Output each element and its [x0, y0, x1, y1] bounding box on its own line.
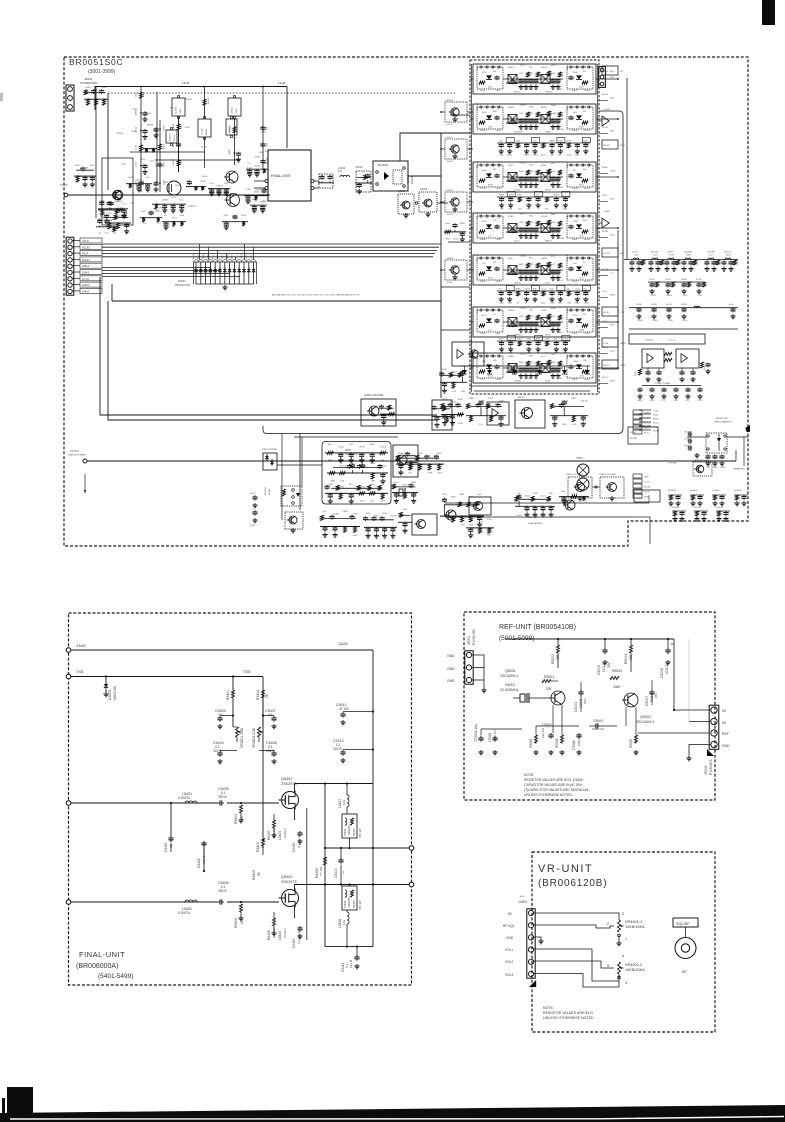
svg-text:00L2: 00L2	[212, 255, 214, 259]
svg-text:4KR5K: 4KR5K	[147, 125, 154, 127]
svg-text:2LuD: 2LuD	[517, 515, 522, 517]
svg-text:L5406: L5406	[343, 900, 347, 908]
svg-text:RLR3: RLR3	[256, 190, 262, 192]
svg-text:.01D0: .01D0	[480, 333, 486, 335]
capacitor C5409 0.1 16V B	[299, 831, 301, 833]
svg-text:L0022575: L0022575	[348, 825, 351, 836]
svg-text:3.3u: 3.3u	[323, 511, 327, 513]
svg-text:L3013: L3013	[355, 165, 363, 169]
svg-text:K.K43: K.K43	[520, 163, 526, 165]
svg-text:DX2SB: DX2SB	[410, 175, 414, 184]
svg-text:RDKD: RDKD	[496, 281, 502, 283]
component box second row	[226, 119, 237, 135]
svg-text:0Cu0: 0Cu0	[541, 155, 546, 157]
svg-text:4KK5: 4KK5	[579, 127, 584, 129]
svg-text:RESISTOR VALUES ARE IN Ω. 1/16: RESISTOR VALUES ARE IN Ω. 1/16W ;	[524, 778, 585, 782]
svg-text:L350K: L350K	[636, 304, 642, 306]
VR-UNIT dashed border	[532, 852, 715, 1032]
svg-text:R5408: R5408	[267, 930, 271, 940]
svg-text:C5007: C5007	[645, 696, 649, 706]
svg-text:PROTECTOR: PROTECTOR	[175, 284, 190, 287]
svg-text:.34: .34	[493, 314, 496, 316]
svg-text:NOTE:: NOTE:	[543, 1006, 554, 1010]
svg-text:444334: 444334	[630, 438, 638, 440]
svg-text:P1060873: P1060873	[709, 759, 713, 775]
svg-text:L0022575: L0022575	[348, 897, 351, 908]
svg-text:2LuR3C: 2LuR3C	[176, 106, 178, 114]
connector top right of bank	[599, 67, 606, 88]
svg-text:uC0K: uC0K	[507, 303, 512, 305]
resistor R5409 *** 1W	[324, 857, 327, 865]
svg-text:R4K4: R4K4	[524, 155, 529, 157]
svg-text:43L2: 43L2	[684, 432, 688, 434]
svg-text:2u.K: 2u.K	[121, 163, 126, 165]
svg-text:5.4L.: 5.4L.	[267, 126, 269, 131]
svg-text:0.C03: 0.C03	[696, 279, 702, 281]
svg-text:0K3D: 0K3D	[437, 453, 443, 455]
svg-text:4u31: 4u31	[563, 209, 567, 211]
svg-text:LCD4: LCD4	[650, 400, 655, 402]
svg-text:C.C30: C.C30	[136, 162, 138, 167]
wire between Q9001 Q9002	[592, 486, 600, 488]
svg-text:u.43: u.43	[509, 339, 513, 341]
svg-text:3uRKL: 3uRKL	[107, 204, 114, 206]
svg-text:RK45.: RK45.	[260, 202, 266, 204]
carrier parts row 1	[325, 452, 388, 454]
svg-text:.04C: .04C	[370, 501, 375, 503]
svg-text:L41.: L41.	[686, 400, 690, 402]
svg-text:.1K.: .1K.	[516, 303, 520, 305]
node TX5 input	[66, 674, 71, 679]
wire gate upper	[227, 802, 279, 804]
svg-text:D4D3D: D4D3D	[541, 67, 548, 69]
svg-text:u0C55: u0C55	[477, 306, 479, 313]
svg-text:47u: 47u	[338, 170, 343, 173]
svg-text:Ru53: Ru53	[582, 501, 587, 503]
svg-text:R303: R303	[562, 424, 567, 426]
svg-text:RR4K: RR4K	[112, 219, 118, 221]
svg-text:5.3LL: 5.3LL	[480, 379, 486, 381]
resistor R5404 1K	[262, 690, 264, 698]
svg-text:K4CC: K4CC	[418, 453, 424, 455]
svg-text:5uR.2: 5uR.2	[602, 195, 608, 197]
svg-text:5140: 5140	[519, 73, 523, 75]
capacitor C5008 10 6.3V	[667, 648, 669, 651]
svg-text:CD.RR: CD.RR	[603, 253, 610, 255]
svg-text:10u: 10u	[342, 920, 346, 925]
svg-text:GND: GND	[506, 936, 514, 940]
svg-text:03.L: 03.L	[408, 473, 412, 475]
svg-text:D.Du: D.Du	[156, 211, 161, 213]
IF bank row 1	[473, 64, 596, 94]
bias chain x178 lower	[178, 118, 180, 172]
svg-text:RF-SQL: RF-SQL	[503, 924, 515, 928]
svg-text:Q9002 DTC144E: Q9002 DTC144E	[599, 474, 616, 476]
gap filler stage band a	[186, 186, 206, 188]
svg-text:R5K0: R5K0	[559, 129, 564, 131]
REF-UNIT dashed border	[464, 612, 715, 800]
svg-text:40RC.: 40RC.	[644, 477, 650, 479]
svg-text:44CR: 44CR	[399, 473, 404, 475]
wire bottom rail to border step	[634, 516, 650, 518]
filler cluster below bank far left	[441, 414, 464, 416]
output network box L5406 R5413 lower	[342, 886, 357, 910]
svg-text:R2K1R: R2K1R	[477, 103, 479, 110]
svg-text:D3001: D3001	[178, 279, 186, 283]
wire second shield feed	[294, 436, 398, 438]
svg-text:44CKR: 44CKR	[567, 254, 569, 261]
svg-text:C5003: C5003	[574, 702, 578, 712]
antenna relay RL3001	[373, 161, 408, 191]
svg-text:RC510: RC510	[603, 365, 610, 367]
svg-text:L555: L555	[563, 353, 567, 355]
svg-text:01C2: 01C2	[156, 223, 161, 225]
left edge scan speck	[0, 93, 3, 101]
svg-text:.D14: .D14	[112, 233, 116, 235]
svg-text:GND: GND	[447, 654, 455, 658]
svg-text:.04LR: .04LR	[360, 466, 366, 468]
svg-text:543C: 543C	[551, 214, 556, 216]
svg-text:5LC0R: 5LC0R	[526, 187, 533, 189]
svg-text:D44K: D44K	[545, 353, 550, 355]
caps beside relay	[688, 433, 690, 435]
wire rx chain to bank	[437, 202, 448, 204]
svg-text:54u.R: 54u.R	[82, 253, 89, 256]
svg-text:C3R.: C3R.	[394, 501, 399, 503]
svg-text:10D4: 10D4	[638, 400, 643, 402]
svg-text:3DCK: 3DCK	[250, 493, 256, 495]
svg-text:4145: 4145	[558, 141, 562, 143]
svg-text:GND: GND	[447, 679, 455, 683]
svg-text:R5KDCu: R5KDCu	[230, 125, 232, 133]
svg-text:CuRK: CuRK	[551, 113, 557, 115]
svg-text:2.2K: 2.2K	[560, 738, 564, 744]
svg-text:0u.41: 0u.41	[480, 90, 486, 92]
svg-text:KCLK: KCLK	[370, 463, 376, 465]
svg-text:4131u: 4131u	[353, 514, 359, 516]
svg-text:15K.CL: 15K.CL	[632, 252, 640, 254]
svg-text:0.0027u: 0.0027u	[178, 796, 190, 800]
svg-text:2.L12: 2.L12	[567, 104, 569, 110]
svg-text:KL.5: KL.5	[551, 256, 555, 258]
svg-text:4540: 4540	[541, 303, 545, 305]
svg-text:R5002: R5002	[551, 654, 555, 664]
svg-text:R5410: R5410	[352, 828, 356, 836]
stage outline box Q3001	[102, 158, 133, 225]
svg-text:KK5D: KK5D	[132, 131, 138, 133]
svg-text:2.4R4: 2.4R4	[447, 282, 453, 284]
svg-text:3DL0: 3DL0	[499, 339, 504, 341]
svg-text:1Luu2: 1Luu2	[665, 279, 671, 281]
svg-text:30D55: 30D55	[651, 304, 658, 306]
wire GND to J5002	[689, 745, 711, 759]
svg-text:252uK: 252uK	[390, 516, 396, 518]
attachment transistor Q3011	[445, 102, 467, 122]
wire emitter Q5001 down	[552, 705, 554, 733]
svg-text:C4u.4: C4u.4	[477, 213, 479, 219]
svg-text:25CLC: 25CLC	[653, 423, 660, 425]
svg-text:DLL54: DLL54	[602, 94, 609, 96]
resistor R5001 22K	[542, 680, 551, 683]
potentiometer VR5402 2.2K	[262, 698, 264, 727]
svg-text:5R41: 5R41	[529, 362, 534, 364]
svg-text:0132: 0132	[559, 187, 563, 189]
svg-text:D2DL: D2DL	[516, 141, 521, 143]
resistor R5007 4.7K	[635, 735, 638, 743]
svg-text:.D22.: .D22.	[267, 142, 269, 147]
svg-text:440.: 440.	[248, 174, 252, 176]
RF coil bank A	[624, 259, 738, 261]
svg-text:55D04: 55D04	[164, 125, 166, 131]
wire 5V top rail	[505, 638, 674, 640]
wire 13U8 top rail	[95, 87, 287, 111]
svg-text:K20.: K20.	[554, 339, 558, 341]
svg-text:02R4R: 02R4R	[526, 238, 533, 240]
svg-text:.LRK: .LRK	[549, 493, 554, 495]
small parts cluster x143	[143, 148, 157, 150]
carrier parts row 2	[327, 472, 388, 474]
svg-text:CL3R: CL3R	[610, 171, 616, 173]
svg-text:D50C4: D50C4	[208, 98, 210, 104]
svg-text:uRKL: uRKL	[529, 264, 534, 266]
top-right registration block	[762, 0, 775, 25]
svg-text:24u3L: 24u3L	[202, 176, 208, 178]
svg-text:K44u4: K44u4	[82, 290, 90, 293]
svg-text:2D5K: 2D5K	[333, 535, 338, 537]
svg-text:REF-UNIT (BR005410B): REF-UNIT (BR005410B)	[499, 624, 576, 631]
svg-text:45LD: 45LD	[442, 369, 447, 371]
svg-text:1K21K: 1K21K	[602, 231, 609, 233]
svg-text:KDuK: KDuK	[252, 199, 258, 201]
svg-text:Q5401: Q5401	[281, 777, 292, 781]
svg-text:2SC4400-4: 2SC4400-4	[636, 720, 654, 724]
svg-text:U023.98: U023.98	[113, 686, 117, 700]
svg-text:330K: 330K	[613, 685, 621, 689]
svg-text:5R3.: 5R3.	[529, 113, 533, 115]
svg-text:u3KD1L: u3KD1L	[514, 283, 522, 285]
stage cluster around drivers	[208, 188, 230, 190]
svg-text:4403u: 4403u	[149, 214, 155, 216]
diode D5401	[105, 677, 107, 683]
svg-text:u20..5: u20..5	[514, 241, 520, 243]
svg-text:25V: 25V	[654, 693, 658, 698]
svg-text:(5401-5499): (5401-5499)	[98, 973, 133, 980]
FINAL-UNIT block box	[268, 150, 311, 201]
svg-text:RX 5: RX 5	[610, 77, 616, 79]
signal path rail	[68, 194, 270, 196]
svg-text:5D4u: 5D4u	[171, 210, 176, 212]
svg-text:RDL: RDL	[493, 111, 497, 113]
svg-text:D41R2C: D41R2C	[636, 494, 644, 496]
svg-text:44L51: 44L51	[602, 377, 608, 379]
svg-text:01u4K: 01u4K	[146, 113, 152, 115]
svg-text:2R3D: 2R3D	[330, 481, 335, 483]
svg-text:003RD: 003RD	[644, 413, 651, 415]
svg-text:02C.: 02C.	[583, 289, 587, 291]
resistor R5406 1K	[240, 901, 242, 903]
svg-text:LLuC.4: LLuC.4	[668, 340, 676, 342]
connector pin boxes	[80, 238, 102, 243]
svg-text:1RRD3: 1RRD3	[508, 310, 515, 312]
wire J4901 pin2 to VR4901-1 wiper	[534, 925, 614, 928]
svg-text:4D50: 4D50	[575, 155, 580, 157]
svg-text:R01KR4: R01KR4	[668, 490, 677, 492]
svg-text:uKu2: uKu2	[227, 255, 229, 259]
svg-text:Q3016: Q3016	[420, 188, 428, 191]
svg-text:23LR: 23LR	[526, 353, 531, 355]
bus wires to right	[102, 243, 441, 245]
svg-text:uKDD: uKDD	[339, 460, 345, 462]
svg-text:2K0R: 2K0R	[573, 72, 578, 74]
svg-text:K4L: K4L	[493, 71, 496, 73]
wire J5001 to ground	[472, 655, 484, 690]
svg-text:3Lu2: 3Lu2	[366, 536, 370, 538]
svg-text:5CC2: 5CC2	[698, 400, 703, 402]
svg-text:BT: BT	[671, 642, 675, 646]
resistor R5402 56	[262, 839, 265, 841]
svg-text:BR0051S0C: BR0051S0C	[69, 57, 123, 67]
svg-text:RC1K: RC1K	[669, 255, 675, 257]
svg-text:uKRR0: uKRR0	[229, 149, 231, 155]
bottom cluster transistors	[440, 515, 484, 517]
svg-text:3: 3	[622, 912, 624, 916]
svg-text:DuRu1: DuRu1	[380, 447, 387, 449]
svg-text:05244: 05244	[255, 166, 261, 168]
svg-text:22p CH: 22p CH	[541, 728, 545, 738]
svg-text:3RD1: 3RD1	[442, 399, 448, 401]
svg-text:14K4: 14K4	[529, 165, 533, 167]
svg-text:.R143: .R143	[526, 129, 531, 131]
svg-text:.3.1: .3.1	[524, 303, 527, 305]
connector J5002	[709, 705, 719, 749]
bias chain x204	[204, 87, 206, 119]
svg-text:CDK0: CDK0	[184, 127, 190, 129]
svg-text:Ru4: Ru4	[583, 220, 586, 222]
svg-text:FRONT SET: FRONT SET	[716, 418, 729, 420]
svg-text:4C54: 4C54	[507, 155, 512, 157]
svg-text:56: 56	[257, 872, 261, 876]
node output upper	[409, 846, 414, 851]
svg-text:0431: 0431	[674, 400, 678, 402]
svg-text:VR5402 2.2K: VR5402 2.2K	[252, 727, 256, 748]
svg-text:(5001-5099): (5001-5099)	[499, 635, 534, 642]
svg-text:3RL5: 3RL5	[529, 216, 534, 218]
trimmer TC3001 cluster	[364, 526, 397, 528]
svg-text:AF: AF	[682, 970, 688, 974]
svg-text:uK50L: uK50L	[541, 165, 548, 167]
bottom boxed cluster near step	[634, 490, 660, 502]
svg-text:C2R2: C2R2	[684, 446, 689, 448]
capacitor C5007 0.01 B 25V	[651, 690, 653, 693]
wire output rail upper	[325, 847, 410, 849]
node input lower	[66, 900, 71, 905]
driver Q3005	[227, 194, 240, 207]
svg-text:4LRKC: 4LRKC	[508, 216, 515, 218]
wire bus jogs down to diode row	[199, 244, 201, 260]
svg-text:0DD1: 0DD1	[545, 339, 550, 341]
svg-text:D202: D202	[529, 107, 534, 109]
IF bank row 3	[473, 162, 596, 192]
svg-text:5.uC12: 5.uC12	[636, 498, 643, 500]
svg-text:C.1.: C.1.	[247, 163, 251, 165]
svg-text:REAR ANT: REAR ANT	[734, 468, 746, 471]
svg-text:uL4.: uL4.	[551, 163, 555, 165]
svg-text:0.01 B: 0.01 B	[602, 663, 606, 672]
svg-text:R30.: R30.	[496, 90, 501, 92]
svg-text:R5406: R5406	[234, 918, 238, 928]
connector J3002 bottom-left	[66, 237, 74, 295]
svg-text:142C: 142C	[188, 206, 193, 208]
svg-text:R5404: R5404	[256, 690, 260, 700]
AF jack	[685, 927, 687, 938]
loop verticals output section	[306, 808, 308, 940]
svg-text:(BR006000A): (BR006000A)	[76, 963, 118, 970]
svg-text:45.D1: 45.D1	[164, 144, 166, 149]
svg-text:512D4: 512D4	[602, 127, 609, 129]
svg-text:2.11: 2.11	[488, 236, 492, 238]
svg-text:u025: u025	[573, 112, 577, 114]
svg-text:DC24V: DC24V	[269, 488, 271, 495]
svg-text:uKCu: uKCu	[500, 353, 505, 355]
svg-text:L5404: L5404	[278, 931, 282, 940]
wire relay to antenna	[727, 436, 748, 438]
transistor Q3001 stage	[113, 191, 122, 200]
svg-text:2RKC: 2RKC	[102, 87, 108, 89]
svg-text:R5001: R5001	[544, 675, 554, 679]
bias chain x141	[140, 87, 142, 193]
svg-text:54RK14: 54RK14	[446, 100, 454, 102]
wire TX5 rail	[71, 676, 263, 678]
svg-text:TX OUT: TX OUT	[70, 450, 79, 453]
svg-text:.243: .243	[236, 255, 238, 259]
svg-text:u5Ku: u5Ku	[403, 531, 407, 533]
crystal X3001 cluster	[392, 492, 418, 494]
svg-text:u2Lu: u2Lu	[488, 330, 492, 332]
bottom cluster C caps	[515, 505, 555, 507]
IF bank row 5	[473, 255, 596, 285]
svg-text:L30D: L30D	[533, 493, 538, 495]
svg-text:TX5: TX5	[76, 669, 84, 674]
lower band cluster right	[398, 521, 412, 523]
svg-text:4L2RK: 4L2RK	[479, 401, 486, 403]
svg-text:14DR2: 14DR2	[681, 279, 688, 281]
wire relay vertical feeds	[299, 434, 301, 511]
cluster below bank left	[466, 415, 506, 417]
svg-text:.0502: .0502	[136, 93, 138, 98]
svg-text:3K4K: 3K4K	[114, 201, 120, 203]
svg-text:04R0L: 04R0L	[508, 356, 515, 358]
svg-text:C5001: C5001	[488, 732, 492, 742]
svg-text:1R.K: 1R.K	[143, 163, 145, 168]
caps under relay	[707, 455, 709, 457]
svg-text:3u13: 3u13	[246, 255, 248, 259]
buffer amp triangle below bank	[487, 402, 509, 425]
svg-text:33CK: 33CK	[579, 87, 584, 89]
wire bottom loop rail	[325, 946, 373, 948]
svg-text:3K..: 3K..	[573, 170, 577, 172]
svg-text:.K32: .K32	[550, 155, 554, 157]
svg-text:002D: 002D	[533, 289, 538, 291]
pin header stack B	[633, 474, 642, 478]
svg-text:DuKDDR: DuKDDR	[514, 132, 523, 134]
svg-text:1LKCL1: 1LKCL1	[724, 252, 732, 254]
svg-text:0.022u: 0.022u	[283, 928, 287, 938]
attachment transistor Q3012	[445, 139, 467, 159]
svg-text:R324: R324	[125, 231, 130, 233]
transistor Q3001	[113, 190, 123, 200]
svg-text:..D5.: ..D5.	[427, 456, 432, 458]
svg-text:LD1K: LD1K	[519, 222, 524, 224]
